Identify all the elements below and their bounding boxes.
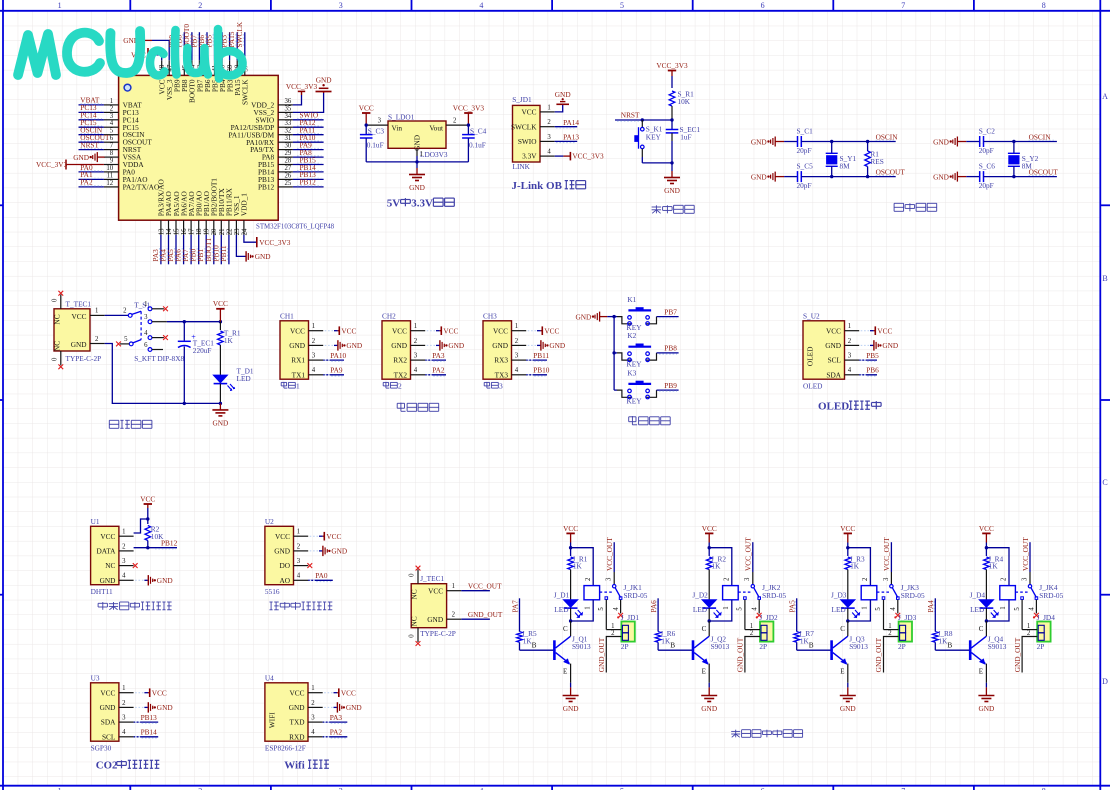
- title reset circuit: [652, 205, 695, 213]
- svg-text:VCC: VCC: [544, 327, 559, 336]
- svg-text:2: 2: [1001, 577, 1008, 581]
- wire net PA4 base input: [926, 598, 935, 631]
- svg-text:1: 1: [95, 308, 98, 315]
- svg-text:PB10: PB10: [533, 366, 550, 375]
- svg-text:VCC: VCC: [428, 586, 443, 595]
- svg-text:3: 3: [378, 118, 382, 125]
- wire net PB11 to MCU pin 22: [219, 235, 229, 264]
- svg-text:U2: U2: [265, 517, 274, 526]
- svg-text:Wifi: Wifi: [284, 760, 305, 772]
- svg-text:1: 1: [122, 529, 125, 536]
- svg-text:E: E: [979, 667, 983, 675]
- svg-text:TX3: TX3: [495, 370, 509, 379]
- svg-text:5: 5: [737, 607, 744, 611]
- svg-text:VCC: VCC: [100, 532, 115, 541]
- svg-text:PB13: PB13: [141, 713, 158, 722]
- J-Link pin2 wire net PA14: [540, 118, 579, 128]
- T_TEC1 no-connect stubs: [52, 291, 64, 369]
- wire net PB8 to MCU pin 45: [174, 32, 184, 60]
- svg-text:PB8: PB8: [664, 344, 677, 353]
- svg-text:DATA: DATA: [97, 547, 117, 556]
- svg-text:C: C: [1102, 478, 1107, 487]
- connector T_TEC1 TYPE-C body: [53, 299, 102, 363]
- svg-text:GND: GND: [255, 252, 271, 261]
- svg-text:GND: GND: [346, 341, 362, 350]
- wire net PA3 to MCU pin 13: [151, 235, 161, 264]
- svg-text:VCC_OUT: VCC_OUT: [605, 537, 614, 571]
- capacitor S_C5 20pF: [784, 161, 813, 190]
- wire net PA0 at U2 pin 4: [308, 571, 333, 582]
- wire net PA5 to MCU pin 15: [166, 235, 176, 264]
- svg-text:26: 26: [285, 172, 292, 179]
- power VCC relay ch2: [702, 524, 717, 550]
- title Wifi module: [284, 760, 329, 772]
- svg-text:10K: 10K: [678, 97, 691, 106]
- svg-text:1K: 1K: [712, 562, 722, 571]
- connector CH1 body: [280, 311, 323, 390]
- svg-text:2: 2: [547, 119, 551, 126]
- svg-text:RX2: RX2: [393, 356, 407, 365]
- svg-text:2: 2: [453, 118, 457, 125]
- svg-text:E: E: [702, 667, 706, 675]
- wire net PA7 base input: [510, 598, 519, 631]
- resistor R1 RES: [865, 142, 884, 177]
- relay switch contacts J_JK4: [1014, 537, 1039, 630]
- svg-text:20pF: 20pF: [797, 181, 812, 190]
- svg-text:3: 3: [311, 715, 315, 722]
- wire net PA1 to MCU pin 11: [79, 170, 104, 179]
- svg-text:GND: GND: [316, 75, 332, 84]
- svg-text:3.3V: 3.3V: [522, 152, 537, 161]
- svg-text:8M: 8M: [840, 162, 851, 171]
- wire net PA4 to MCU pin 14: [158, 235, 168, 264]
- svg-text:2: 2: [312, 338, 316, 345]
- J_TEC1 no-connect stubs: [409, 566, 421, 646]
- svg-text:1: 1: [311, 685, 314, 692]
- svg-text:GND: GND: [840, 704, 856, 713]
- svg-text:SRD-05: SRD-05: [762, 591, 786, 600]
- svg-text:SRD-05: SRD-05: [624, 591, 648, 600]
- ground at CH2 pin 2: [427, 340, 465, 350]
- power VCC_3V3 at LDO output: [453, 103, 485, 125]
- svg-text:RX1: RX1: [291, 356, 305, 365]
- connector CH3 body: [483, 311, 526, 390]
- switch T_S1 S_KFT DIP-8X8: [116, 301, 184, 363]
- LED J_D3: [831, 590, 860, 622]
- title key circuit: [629, 416, 671, 425]
- svg-text:18: 18: [196, 228, 203, 235]
- svg-text:4: 4: [848, 367, 852, 374]
- power VCC at U3 pin 1: [135, 688, 167, 697]
- svg-text:0: 0: [409, 634, 416, 638]
- svg-text:4: 4: [479, 1, 483, 10]
- ground at CH3 pin 2: [528, 340, 566, 350]
- svg-text:TYPE-C-2P: TYPE-C-2P: [66, 354, 102, 363]
- svg-text:1: 1: [1027, 623, 1030, 630]
- wire net PB6 to MCU pin 42: [197, 32, 207, 60]
- svg-text:3: 3: [297, 558, 301, 565]
- wire net PB13 to MCU pin 26: [293, 170, 324, 179]
- svg-text:1: 1: [297, 529, 300, 536]
- power VCC_3V3 at MCU pin 24 VDD_1: [244, 235, 291, 247]
- svg-text:8: 8: [1042, 1, 1046, 10]
- svg-text:28: 28: [285, 158, 292, 165]
- svg-text:VCC: VCC: [979, 524, 994, 533]
- svg-text:1K: 1K: [224, 336, 234, 345]
- relay coil J_JK4 SRD-05: [986, 548, 1063, 621]
- svg-text:J_D3: J_D3: [831, 590, 847, 599]
- svg-text:C: C: [979, 625, 984, 633]
- svg-text:2: 2: [123, 308, 127, 315]
- svg-text:23: 23: [234, 228, 241, 235]
- svg-text:4: 4: [479, 787, 483, 790]
- wire net PC13 to MCU pin 2: [79, 103, 104, 112]
- svg-text:LED: LED: [832, 605, 846, 614]
- svg-text:PA13: PA13: [563, 133, 579, 142]
- svg-text:S_JD1: S_JD1: [512, 95, 532, 104]
- svg-text:25: 25: [285, 180, 292, 187]
- svg-text:GND: GND: [100, 703, 116, 712]
- svg-text:1: 1: [888, 623, 891, 630]
- svg-text:21: 21: [219, 229, 226, 236]
- svg-text:VCC: VCC: [443, 327, 458, 336]
- svg-text:S_C5: S_C5: [797, 161, 814, 170]
- svg-text:J_D4: J_D4: [970, 590, 986, 599]
- svg-text:GND: GND: [289, 341, 305, 350]
- wire net PB3 to MCU pin 39: [220, 32, 230, 60]
- wire net PA9 at CH1 pin 4: [323, 366, 344, 377]
- wire net NRST to MCU pin 7: [79, 140, 104, 149]
- wire net PA5 base input: [788, 598, 797, 631]
- svg-text:T_TEC1: T_TEC1: [66, 299, 92, 308]
- wire net PA10 at CH1 pin 3: [323, 351, 346, 362]
- connector J_JD1 2P: [597, 613, 639, 673]
- svg-text:PB9: PB9: [664, 381, 677, 390]
- svg-text:Vout: Vout: [429, 123, 443, 132]
- svg-text:0.1uF: 0.1uF: [469, 140, 486, 149]
- svg-text:U1: U1: [91, 517, 100, 526]
- svg-text:VCC_OUT: VCC_OUT: [1021, 537, 1030, 571]
- title light detect module: [270, 602, 333, 610]
- svg-text:VCC_OUT: VCC_OUT: [468, 582, 502, 591]
- MCUclub logo: [18, 31, 140, 75]
- svg-text:5: 5: [124, 336, 128, 343]
- svg-text:0: 0: [409, 573, 416, 577]
- svg-text:PA0: PA0: [315, 571, 328, 580]
- svg-text:VCC: VCC: [521, 108, 536, 117]
- svg-text:S_C3: S_C3: [368, 127, 385, 136]
- svg-text:27: 27: [285, 165, 292, 172]
- wire net OSCIN: [984, 132, 1057, 143]
- svg-text:GND: GND: [212, 418, 228, 427]
- svg-text:2: 2: [888, 630, 892, 637]
- svg-text:2: 2: [515, 338, 519, 345]
- wire net PA3 at U4 pin 3: [323, 713, 348, 724]
- svg-text:CH3: CH3: [483, 311, 497, 320]
- svg-text:VCC: VCC: [275, 532, 290, 541]
- svg-text:LED: LED: [554, 605, 568, 614]
- svg-text:PA2: PA2: [330, 728, 343, 737]
- svg-text:DHT11: DHT11: [91, 587, 113, 596]
- svg-text:3: 3: [1021, 577, 1028, 581]
- svg-text:4: 4: [613, 607, 620, 611]
- svg-text:PB11: PB11: [533, 351, 549, 360]
- wire net PA2 at U4 pin 4: [323, 728, 348, 739]
- svg-text:20: 20: [211, 228, 218, 235]
- svg-text:LED: LED: [693, 605, 707, 614]
- svg-text:4: 4: [751, 607, 758, 611]
- ground at MCU pin 35 VSS_2: [293, 75, 332, 112]
- svg-text:VCC_3V3: VCC_3V3: [656, 61, 688, 70]
- power VCC relay ch4: [979, 524, 994, 550]
- power VCC at S_U2 pin 1: [861, 326, 893, 335]
- ground symbol reset: [664, 163, 680, 195]
- connector J_JD2 2P: [736, 613, 778, 673]
- svg-text:6: 6: [144, 342, 148, 349]
- resistor J_R3 1K: [845, 548, 865, 600]
- svg-text:2: 2: [414, 338, 418, 345]
- svg-text:1: 1: [1000, 606, 1007, 609]
- svg-text:TXD: TXD: [290, 718, 305, 727]
- svg-text:VCC: VCC: [152, 689, 167, 698]
- svg-text:KEY: KEY: [627, 397, 643, 406]
- ground symbol crystal S_C5: [751, 172, 784, 182]
- svg-text:NC: NC: [53, 314, 62, 324]
- title power circuit: [109, 420, 152, 428]
- svg-text:4: 4: [311, 729, 315, 736]
- wire net PB10 at CH3 pin 4: [526, 366, 550, 377]
- svg-text:K3: K3: [627, 368, 636, 377]
- svg-text:PA2: PA2: [432, 366, 445, 375]
- svg-text:1: 1: [58, 787, 62, 790]
- power VCC at U4 pin 1: [324, 688, 356, 697]
- ground symbol relay ch4: [978, 687, 994, 713]
- J-Link pin3 wire net PA13: [540, 133, 579, 143]
- svg-text:S_C2: S_C2: [979, 126, 996, 135]
- svg-text:3: 3: [339, 787, 343, 790]
- svg-text:C: C: [840, 625, 845, 633]
- svg-text:VCC_3V3: VCC_3V3: [286, 82, 318, 91]
- svg-text:K2: K2: [627, 331, 636, 340]
- svg-text:0: 0: [52, 298, 59, 302]
- svg-text:19: 19: [204, 228, 211, 235]
- svg-text:GND: GND: [575, 312, 591, 321]
- MCU left pins 1-12: [104, 98, 159, 191]
- svg-text:2: 2: [1027, 630, 1031, 637]
- svg-text:DO: DO: [279, 561, 290, 570]
- svg-text:1: 1: [584, 606, 591, 609]
- svg-text:VCC: VCC: [826, 326, 841, 335]
- svg-text:GND_OUT: GND_OUT: [874, 637, 883, 672]
- svg-text:13: 13: [158, 228, 165, 235]
- svg-text:1: 1: [515, 323, 518, 330]
- svg-text:1: 1: [862, 606, 869, 609]
- svg-text:2: 2: [452, 612, 456, 619]
- transistor J_Q1 S9013: [520, 621, 592, 687]
- wire net BOOT0 to MCU pin 44: [182, 24, 192, 61]
- svg-text:GND: GND: [448, 341, 464, 350]
- svg-text:B: B: [532, 641, 537, 650]
- wire switch pin3 to VCC node: [152, 320, 222, 323]
- svg-text:S9013: S9013: [988, 642, 1007, 651]
- relay switch contacts J_JK2: [737, 537, 762, 630]
- power VCC_3V3 at MCU pin 9 VDDA: [36, 160, 104, 170]
- resistor S_R1 10K: [669, 89, 694, 120]
- svg-text:PB12: PB12: [258, 183, 275, 192]
- svg-text:VCC: VCC: [359, 103, 374, 112]
- svg-text:3: 3: [339, 1, 343, 10]
- resistor J_R7 1K: [794, 629, 814, 650]
- svg-text:20pF: 20pF: [797, 146, 812, 155]
- capacitor S_C3 0.1uF: [360, 123, 384, 161]
- LED J_D1: [554, 590, 583, 622]
- svg-text:1: 1: [110, 98, 113, 105]
- svg-text:K1: K1: [627, 295, 636, 304]
- wire net NRST: [615, 110, 674, 121]
- power VCC pullup DHT11: [134, 494, 156, 533]
- svg-text:S_U2: S_U2: [803, 311, 820, 320]
- svg-text:C: C: [702, 625, 707, 633]
- relay switch contacts J_JK3: [875, 537, 900, 630]
- svg-text:GND: GND: [978, 704, 994, 713]
- svg-text:24: 24: [241, 228, 248, 235]
- svg-text:VCC: VCC: [289, 688, 304, 697]
- svg-text:5: 5: [598, 607, 605, 611]
- wire net PA8 to MCU pin 29: [293, 148, 324, 157]
- svg-text:GND: GND: [933, 137, 949, 146]
- svg-text:17: 17: [189, 228, 196, 235]
- wire net PA0 to MCU pin 10: [79, 163, 104, 172]
- push button K1 KEY: [617, 295, 657, 332]
- wire net PA12 to MCU pin 33: [293, 118, 324, 127]
- svg-text:PA9: PA9: [330, 366, 343, 375]
- wire net VCC_OUT: [447, 582, 502, 591]
- svg-text:PB6: PB6: [866, 366, 879, 375]
- wire key trunk: [607, 315, 617, 390]
- ground at MCU pin 8 VSSA: [73, 152, 104, 162]
- svg-text:GND: GND: [73, 153, 89, 162]
- svg-text:J_D1: J_D1: [554, 590, 570, 599]
- svg-text:GND: GND: [289, 703, 305, 712]
- wire net BOOT1 to MCU pin 20: [204, 235, 214, 264]
- svg-text:GND: GND: [933, 172, 949, 181]
- svg-text:3: 3: [122, 558, 126, 565]
- svg-text:2P: 2P: [1037, 642, 1045, 651]
- svg-text:4: 4: [312, 367, 316, 374]
- svg-text:1K: 1K: [850, 562, 860, 571]
- connector CH2 body: [382, 311, 425, 390]
- svg-text:22: 22: [226, 228, 233, 235]
- svg-text:GND: GND: [391, 341, 407, 350]
- svg-text:VCC: VCC: [213, 299, 228, 308]
- wire net PB5 at S_U2 pin 3: [859, 351, 879, 362]
- svg-text:LED: LED: [237, 374, 251, 383]
- title OLED display: [818, 401, 881, 413]
- wire net PA3 at CH2 pin 3: [425, 351, 446, 362]
- svg-text:36: 36: [285, 98, 292, 105]
- svg-text:VCC_3V3: VCC_3V3: [36, 160, 68, 169]
- wire net VBAT to MCU pin 1: [79, 96, 104, 105]
- svg-text:J_JD2: J_JD2: [759, 613, 778, 622]
- svg-text:20pF: 20pF: [979, 146, 994, 155]
- power VCC relay ch3: [840, 524, 855, 550]
- svg-text:0: 0: [52, 357, 59, 361]
- svg-text:VCC: VCC: [840, 524, 855, 533]
- svg-text:A: A: [1102, 92, 1108, 101]
- svg-text:VCC: VCC: [877, 327, 892, 336]
- ground at U3 pin 2: [135, 702, 173, 712]
- svg-text:2: 2: [311, 700, 315, 707]
- resistor J_R1 1K: [568, 548, 588, 600]
- svg-text:5516: 5516: [265, 587, 280, 596]
- svg-text:PA2/TX/AO: PA2/TX/AO: [123, 182, 160, 191]
- svg-text:2P: 2P: [898, 642, 906, 651]
- svg-text:PA10: PA10: [330, 351, 346, 360]
- ground symbol LDO: [409, 162, 425, 192]
- connector S_U2 body: [803, 311, 859, 390]
- J-Link pin4 wire power VCC_3V3: [540, 152, 604, 161]
- svg-text:6: 6: [761, 787, 765, 790]
- svg-text:PB5: PB5: [866, 351, 879, 360]
- svg-text:2: 2: [297, 543, 301, 550]
- power VCC relay ch1: [563, 524, 578, 550]
- capacitor S_C4 0.1uF: [462, 123, 486, 161]
- wire net PB6 at S_U2 pin 4: [859, 366, 879, 377]
- svg-text:PB14: PB14: [141, 728, 158, 737]
- svg-text:1K: 1K: [989, 562, 999, 571]
- svg-text:PB7: PB7: [664, 307, 677, 316]
- svg-text:NC: NC: [410, 616, 419, 626]
- svg-text:31: 31: [285, 135, 292, 142]
- wire net PA9 to MCU pin 30: [293, 140, 324, 149]
- svg-text:5: 5: [875, 607, 882, 611]
- svg-text:CH1: CH1: [280, 311, 294, 320]
- svg-text:GND: GND: [157, 703, 173, 712]
- svg-text:KEY: KEY: [627, 360, 643, 369]
- capacitor S_EC1 1uF: [666, 120, 701, 165]
- transistor J_Q3 S9013: [797, 621, 869, 687]
- svg-text:3: 3: [414, 353, 418, 360]
- resistor J_R5 1K: [517, 629, 537, 650]
- svg-text:4: 4: [122, 729, 126, 736]
- svg-text:1: 1: [122, 685, 125, 692]
- ground symbol power-circuit: [212, 403, 228, 427]
- ground at MCU pin 23 VSS_1: [236, 235, 270, 262]
- svg-text:TX1: TX1: [292, 370, 306, 379]
- svg-text:VCC_OUT: VCC_OUT: [744, 537, 753, 571]
- svg-text:GND_OUT: GND_OUT: [736, 637, 745, 672]
- svg-text:WIFI: WIFI: [267, 712, 276, 728]
- svg-text:7: 7: [901, 787, 905, 790]
- svg-text:SDA: SDA: [826, 370, 841, 379]
- LDO ground pin 1 and bottom rail: [366, 148, 468, 163]
- svg-text:S9013: S9013: [572, 642, 591, 651]
- svg-text:4: 4: [110, 120, 114, 127]
- svg-text:3: 3: [744, 577, 751, 581]
- svg-text:GND_OUT: GND_OUT: [1013, 637, 1022, 672]
- svg-text:RXD: RXD: [289, 732, 304, 741]
- svg-text:GND: GND: [825, 341, 841, 350]
- power VCC_3V3 at MCU pin 36 VDD_2: [286, 82, 318, 105]
- J-Link pin1 wire to ground: [540, 105, 563, 112]
- wire net OSCIN: [801, 132, 898, 143]
- svg-text:1: 1: [414, 323, 417, 330]
- LDO regulator S_LDO1 body: [388, 112, 448, 159]
- capacitor T_EC1 220uF: [178, 322, 214, 404]
- svg-text:2: 2: [122, 700, 126, 707]
- svg-text:20pF: 20pF: [979, 181, 994, 190]
- svg-text:U3: U3: [91, 673, 100, 682]
